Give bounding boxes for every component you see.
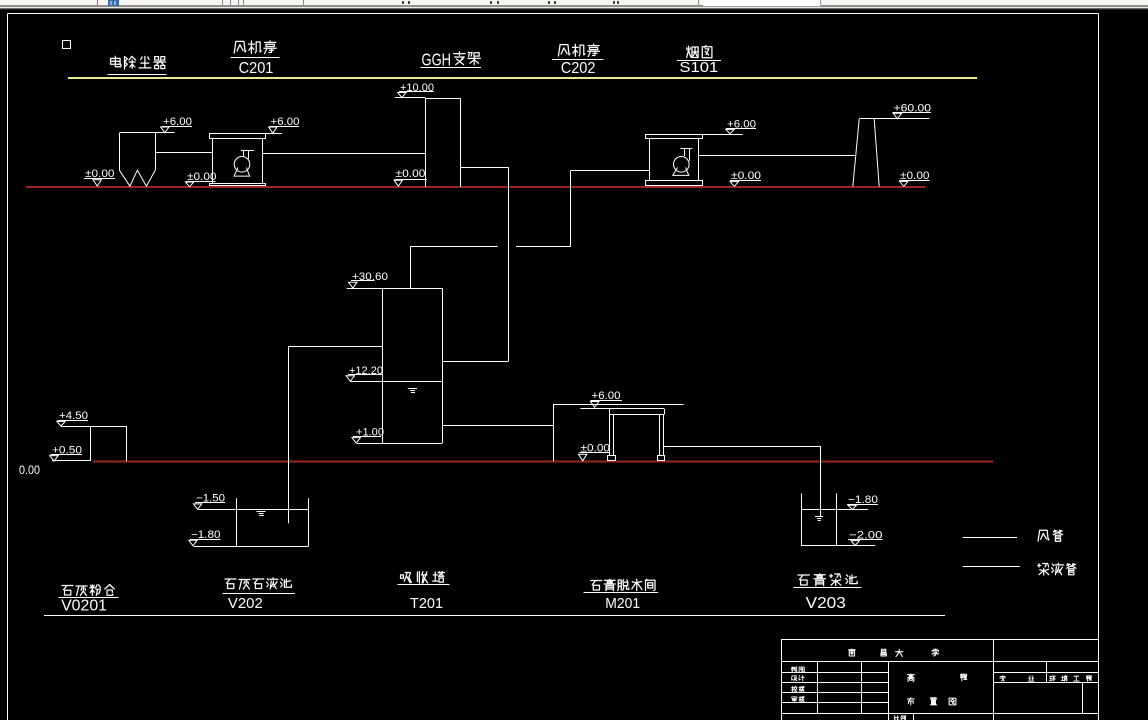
svg-text:T201: T201 [410, 595, 443, 612]
gypsum slurry tank V203 [801, 493, 875, 545]
title block: drawing title 高程布置图 [907, 674, 966, 705]
liquid level symbol in absorber [408, 389, 417, 393]
elevation marker +4.50 at V0201 [57, 410, 88, 426]
svg-text:V203: V203 [806, 595, 846, 612]
elevation marker +30.60 at absorber top [349, 271, 388, 288]
elevation marker ±0.00 at chimney [899, 170, 930, 186]
svg-text:V0201: V0201 [61, 597, 107, 614]
GGH support tower [395, 98, 461, 188]
elevation marker +12.20 at absorber [346, 365, 383, 381]
elevation marker -1.80 at V203 [847, 494, 878, 510]
svg-text:S101: S101 [679, 59, 718, 76]
elevation marker +6.00 at ESP [161, 116, 192, 133]
legend: slurry pipe 浆液管 [963, 563, 1076, 575]
electrostatic precipitator (ESP) vessel with hoppers [120, 133, 175, 187]
fan house C202 [646, 135, 703, 186]
liquid level symbol in V202 [257, 512, 266, 516]
label: GGH support GGH支架 [421, 50, 482, 70]
red ground datum line 0.00 (upper) [26, 186, 925, 188]
toolbar sliver (cropped app toolbar) [0, 0, 1148, 10]
wire: duct fan C202 to chimney [698, 155, 856, 157]
svg-text:C202: C202 [561, 60, 596, 77]
elevation marker +6.00 at C201 [265, 116, 299, 134]
limestone slurry tank V202 [194, 498, 309, 546]
title block: 环境工程 cell [1050, 676, 1092, 682]
label: limestone slurry tank 石灰石液池 V202 [223, 578, 296, 612]
legend: air duct 风管 [963, 530, 1063, 541]
title block: row labels 制图/设计/校核/审核 [791, 667, 804, 702]
elevation marker ±0.00 at C202 [730, 170, 761, 186]
label: chimney S101 烟囱 [677, 46, 721, 76]
wire: GGH outlet duct down to absorber inlet [442, 167, 509, 361]
label: absorber 吸收塔 T201 [398, 572, 450, 613]
label: ESP 电除尘器 [108, 56, 167, 74]
elevation marker ±0.00 at GGH [394, 168, 427, 186]
yellow header line [68, 77, 977, 79]
svg-text:GGH: GGH [422, 50, 452, 70]
title block grid [782, 639, 1099, 720]
label: lime powder silo 石灰粉仓 V0201 [58, 585, 118, 615]
wire: slurry pipe M201 to V203 tank [663, 446, 820, 516]
elevation marker +60.00 at chimney [893, 102, 932, 118]
fan/pump symbol inside C202 [673, 149, 693, 176]
red ground datum line 0.00 (lower) [93, 461, 993, 463]
svg-text:M201: M201 [605, 596, 640, 612]
lime powder silo V0201 [52, 426, 127, 461]
title block: 专业 cell [1000, 676, 1034, 682]
elevation marker +10.00 at GGH [398, 82, 434, 98]
svg-text:C201: C201 [239, 60, 274, 77]
label: fan room C202 风机房 [552, 44, 604, 77]
gypsum dewatering room M201 [553, 404, 683, 461]
fan/pump symbol inside C201 [234, 150, 254, 176]
small square mark top-left [63, 41, 71, 49]
elevation marker ±0.00 at C201 [185, 171, 216, 187]
elevation marker +1.00 at absorber bottom [352, 427, 384, 443]
chimney S101 [853, 119, 930, 187]
long underline for equipment designators [44, 615, 945, 617]
absorber tower T201 [347, 288, 443, 443]
label: fan room C201 风机房 [231, 41, 280, 77]
elevation marker +0.50 at V0201 [50, 445, 82, 461]
elevation marker +6.00 at M201 [590, 390, 622, 407]
label: gypsum slurry tank 石膏浆池 V203 [793, 574, 861, 612]
wire: duct ESP to fan C201 [155, 152, 213, 154]
elevation marker -2.00 at V203 [848, 530, 883, 546]
svg-text:±0.00: ±0.00 [396, 168, 426, 180]
fan house C201 [210, 134, 266, 186]
elevation marker -1.50 at V202 [193, 493, 225, 510]
wire: duct fan C201 to GGH [262, 153, 425, 155]
elevation marker ±0.00 at ESP [84, 168, 115, 186]
wire: absorber outlet duct to fan C202 (crosses inlet duct with gap) [411, 171, 650, 289]
title block: bottom row partial 比例 [894, 716, 906, 720]
elevation marker -1.80 at V202 [189, 529, 221, 546]
svg-text:0.00: 0.00 [19, 463, 40, 477]
svg-text:V202: V202 [228, 596, 263, 612]
liquid level symbol in V203 [815, 517, 823, 521]
wire: slurry pipe absorber to M201 [442, 425, 553, 427]
wire: slurry pipe absorber to V202 tank [289, 346, 383, 523]
title block: university name 南昌大学 [849, 649, 939, 657]
label: gypsum dewatering room 石膏脱水间 M201 [584, 579, 659, 612]
elevation marker ±0.00 at M201 [579, 443, 611, 461]
elevation marker +6.00 at C202 [702, 119, 756, 135]
